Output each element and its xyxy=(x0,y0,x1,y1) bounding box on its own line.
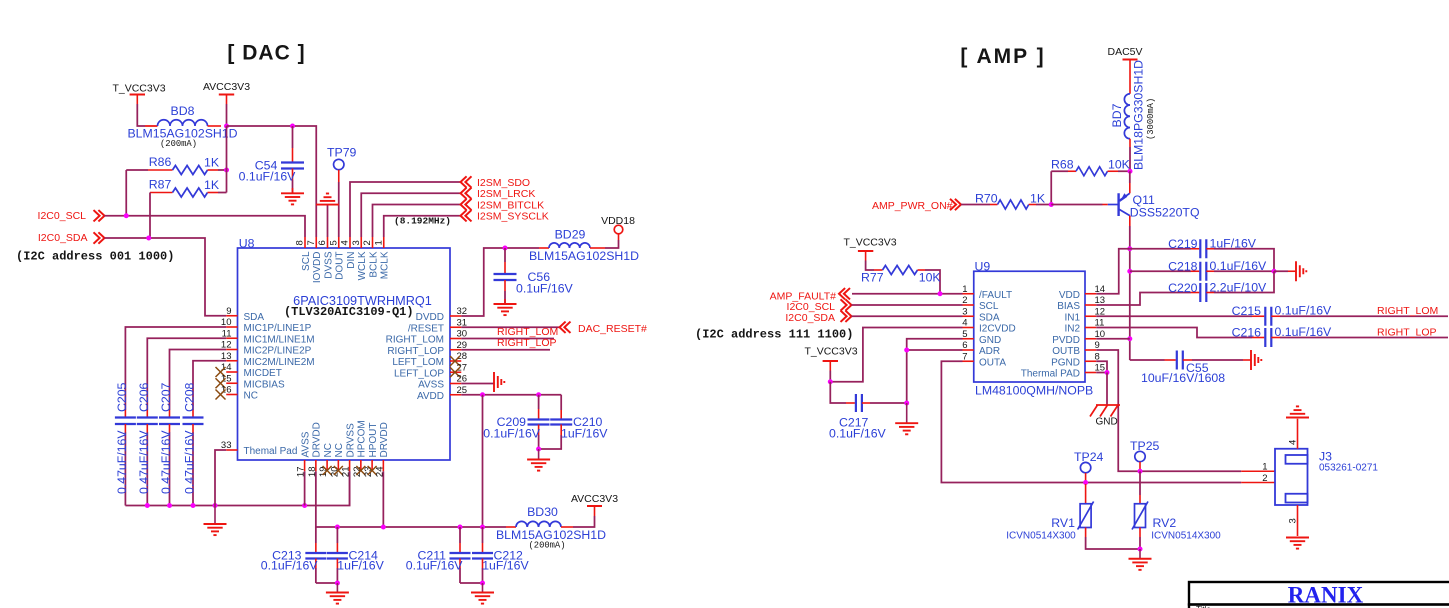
ferrite bead BD30 xyxy=(506,521,573,527)
svg-text:ICVN0514X300: ICVN0514X300 xyxy=(1151,531,1221,542)
junction TP24/OUTA xyxy=(1083,480,1088,485)
title block RANIX xyxy=(1288,583,1364,608)
U8 pin 22 HPCOM (bottom) xyxy=(352,420,368,477)
svg-text:DRVDD: DRVDD xyxy=(312,422,323,457)
value R77 10K xyxy=(919,271,942,285)
wire AVCC3V3 stem xyxy=(226,104,228,126)
value ICVN0514X300 (RV1) xyxy=(1006,531,1076,542)
svg-text:VDD: VDD xyxy=(1059,290,1080,301)
net label RIGHT_LOP (AMP) xyxy=(1377,326,1437,338)
junction PGND/pad xyxy=(1105,370,1110,375)
value C212 1uF/16V xyxy=(482,558,529,572)
title block Title text xyxy=(1196,605,1211,608)
value C207 0.47uF/16V xyxy=(159,430,173,494)
ground below C54 xyxy=(281,193,304,204)
net label AMP_FAULT# xyxy=(770,288,850,302)
wire BD8 node down to R87 xyxy=(226,126,228,193)
svg-text:13: 13 xyxy=(1095,295,1106,306)
U8 pin 21 DRVSS (bottom) xyxy=(341,423,357,477)
ground below rail xyxy=(204,506,227,536)
net label I2SM_SDO xyxy=(461,176,531,189)
connector J3 body xyxy=(1275,449,1308,505)
svg-text:3: 3 xyxy=(1288,518,1299,523)
power T_VCC3V3 (DAC) xyxy=(112,83,165,105)
U8 pin 8 SCL (top) xyxy=(295,237,312,271)
net label RIGHT_LOM (DAC) xyxy=(497,326,558,338)
value C215 0.1uF/16V xyxy=(1275,304,1333,318)
svg-text:(3000mA): (3000mA) xyxy=(1146,98,1156,140)
op-amp U9 box xyxy=(974,271,1085,382)
svg-text:1: 1 xyxy=(1262,462,1267,473)
junction C218 node xyxy=(1127,269,1132,274)
wire T_VCC3V3 stem 2 xyxy=(829,371,831,382)
capacitor C54 xyxy=(281,126,304,193)
U8 pin 28 LEFT_LOM (right) xyxy=(392,351,467,368)
capacitor C213 xyxy=(305,527,337,583)
svg-text:U9: U9 xyxy=(975,260,991,274)
label C211 xyxy=(418,549,447,563)
U9 pin 11 IN2 (right) xyxy=(1064,318,1104,335)
net label I2SM_SYSCLK xyxy=(461,210,549,222)
wire T_VCC3V3 to BD8 xyxy=(137,104,157,126)
capacitor C211 xyxy=(450,527,483,583)
svg-text:R70: R70 xyxy=(975,192,998,206)
svg-text:BLM15AG102SH1D: BLM15AG102SH1D xyxy=(529,249,639,263)
svg-text:1uF/16V: 1uF/16V xyxy=(337,558,384,572)
svg-text:(200mA): (200mA) xyxy=(529,541,566,551)
label GND xyxy=(1096,417,1118,428)
svg-text:RIGHT_LOM: RIGHT_LOM xyxy=(497,326,558,338)
svg-text:0.1uF/16V: 0.1uF/16V xyxy=(1275,325,1333,339)
label RV1 xyxy=(1051,516,1075,530)
U9 pin 10 PVDD (right) xyxy=(1052,329,1105,346)
svg-text:DVDD: DVDD xyxy=(416,312,444,323)
svg-text:AMP_PWR_ON#: AMP_PWR_ON# xyxy=(872,200,953,212)
net label DAC_RESET# xyxy=(560,322,648,335)
svg-text:LEFT_LOM: LEFT_LOM xyxy=(392,357,444,368)
U8 pin 17 AVSS (bottom) xyxy=(296,431,312,477)
junction R70/R68 xyxy=(1049,202,1054,207)
svg-text:BD8: BD8 xyxy=(171,104,195,118)
ferrite bead BD29 xyxy=(539,243,605,248)
junction T_VCC3V3/C217 xyxy=(828,379,833,384)
svg-text:3: 3 xyxy=(351,240,362,245)
svg-text:(TLV320AIC3109-Q1): (TLV320AIC3109-Q1) xyxy=(284,305,414,319)
net label AMP_PWR_ON# xyxy=(872,199,961,212)
value C218 0.1uF/16V xyxy=(1210,259,1268,273)
resistor R86 xyxy=(126,166,226,175)
U8 pin 5 DOUT (top) xyxy=(328,237,345,280)
value C209 0.1uF/16V xyxy=(483,427,541,441)
wire OUTB pin9 to J3 pin1 xyxy=(1096,350,1275,471)
junction C218/C219/C220 xyxy=(1272,269,1277,274)
label BD30 xyxy=(527,505,558,519)
U9 pin 3 SDA (left) xyxy=(962,306,1000,323)
wire I2C0_SCL to pin2 xyxy=(852,304,963,306)
wire pin17 to rail xyxy=(304,471,306,505)
varistor RV2 xyxy=(1132,471,1148,549)
svg-text:0.1uF/16V: 0.1uF/16V xyxy=(406,558,464,572)
svg-text:BIAS: BIAS xyxy=(1057,301,1080,312)
svg-text:BD7: BD7 xyxy=(1110,103,1124,127)
value R87 1K xyxy=(204,178,220,192)
svg-text:T_VCC3V3: T_VCC3V3 xyxy=(804,346,857,358)
label R70 xyxy=(975,192,998,206)
label C212 xyxy=(494,549,524,563)
svg-text:RV1: RV1 xyxy=(1051,516,1075,530)
ground above DVSS pin6 xyxy=(316,194,339,205)
junction C54 tap xyxy=(290,124,295,129)
svg-text:2.2uF/10V: 2.2uF/10V xyxy=(1210,281,1268,295)
ground below C56 xyxy=(494,304,517,315)
wire pad node down xyxy=(1106,373,1108,406)
wire R87 left leg down xyxy=(149,193,151,239)
svg-text:I2SM_LRCK: I2SM_LRCK xyxy=(477,188,535,200)
value BLM15AG102SH1D (BD29) xyxy=(529,249,639,263)
svg-text:5: 5 xyxy=(962,329,967,340)
testpoint TP25 xyxy=(1130,439,1160,471)
svg-text:WCLK: WCLK xyxy=(357,251,368,280)
label RV2 xyxy=(1153,516,1177,530)
capacitor C220 xyxy=(1096,271,1274,305)
value C213 0.1uF/16V xyxy=(261,558,319,572)
svg-text:U8: U8 xyxy=(239,237,255,251)
value 053261-0271 (J3) xyxy=(1319,463,1378,474)
transistor Q11 xyxy=(1108,171,1130,226)
note I2C address 001 1000 xyxy=(16,250,174,264)
wire RIGHT_LOM pin30 xyxy=(461,338,554,340)
svg-text:C215: C215 xyxy=(1232,304,1262,318)
svg-text:DAC5V: DAC5V xyxy=(1107,46,1142,58)
svg-text:MIC1P/LINE1P: MIC1P/LINE1P xyxy=(244,323,312,334)
power symbol GND (hatched) xyxy=(1090,405,1120,417)
junction C209/C210 gnd xyxy=(536,447,541,452)
U8 pin 31 /RESET (right) xyxy=(408,317,467,334)
svg-text:1uF/16V: 1uF/16V xyxy=(1210,237,1257,251)
value (200mA) (BD8) xyxy=(160,139,197,149)
svg-text:GND: GND xyxy=(1096,417,1118,428)
svg-text:9: 9 xyxy=(226,306,231,317)
svg-text:R77: R77 xyxy=(861,271,884,285)
label C54 xyxy=(255,159,278,173)
svg-text:PGND: PGND xyxy=(1051,357,1080,368)
value DSS5220TQ (Q11) xyxy=(1130,206,1200,220)
wire OUTA pin7 to J3 pin2 xyxy=(941,361,1275,482)
wire TP79 to pin5 xyxy=(338,182,340,237)
label C219 xyxy=(1168,237,1198,251)
value (200mA) (BD30) xyxy=(529,541,566,551)
svg-text:15: 15 xyxy=(221,373,232,384)
U8 pin 25 AVDD (right) xyxy=(417,385,467,402)
net label I2C0_SDA (AMP) xyxy=(785,311,851,324)
svg-text:ADR: ADR xyxy=(979,346,1000,357)
junction rail pin17 xyxy=(302,503,307,508)
svg-text:T_VCC3V3: T_VCC3V3 xyxy=(843,237,896,249)
value C55 10uF/16V/1608 xyxy=(1141,371,1225,385)
wire Q11 collector down xyxy=(1129,226,1131,360)
svg-text:MICBIAS: MICBIAS xyxy=(244,379,285,390)
U8 pin 14 MICDET (left) xyxy=(216,362,282,379)
wire MIC pin to C205 xyxy=(125,327,226,418)
label C215 xyxy=(1232,304,1262,318)
resistor R77 xyxy=(866,261,940,294)
wire BD29 to VDD18 xyxy=(605,234,619,248)
label Q11 xyxy=(1133,193,1155,207)
capacitor C206 xyxy=(137,418,158,506)
svg-text:4: 4 xyxy=(1288,440,1299,445)
svg-text:DAC_RESET#: DAC_RESET# xyxy=(578,323,647,335)
svg-text:I2SM_BITCLK: I2SM_BITCLK xyxy=(477,199,544,211)
junction rail pin24 xyxy=(381,525,386,530)
svg-text:10K: 10K xyxy=(1108,158,1131,172)
svg-text:IOVDD: IOVDD xyxy=(312,252,323,284)
wire AVSS pin26 to ground xyxy=(461,383,494,385)
svg-text:0.1uF/16V: 0.1uF/16V xyxy=(239,170,297,184)
junction C209 tap xyxy=(536,392,541,397)
net label I2SM_LRCK xyxy=(461,188,536,200)
svg-text:14: 14 xyxy=(221,362,232,373)
wire pin24 to rail xyxy=(382,471,384,527)
ferrite bead BD8 xyxy=(158,120,222,126)
junction rail AVDD xyxy=(480,525,485,530)
part number 6PAIC3109TWRHMRQ1 xyxy=(293,294,432,308)
svg-text:R86: R86 xyxy=(149,155,172,169)
U8 pin 26 AVSS (right) xyxy=(418,374,467,391)
net label I2C0_SDA (DAC) xyxy=(38,232,105,244)
ground below C214 xyxy=(326,583,349,604)
junction rail C206 xyxy=(145,503,150,508)
U8 pin 12 MIC2P/LINE2P (left) xyxy=(221,340,312,357)
U8 pin 3 WCLK (top) xyxy=(351,237,368,280)
svg-text:1uF/16V: 1uF/16V xyxy=(561,427,608,441)
wire analog ground rail xyxy=(125,471,349,505)
label R87 xyxy=(149,178,172,192)
label R86 xyxy=(149,155,172,169)
capacitor C219 xyxy=(1130,239,1274,271)
net label I2C0_SCL (AMP) xyxy=(787,299,852,313)
svg-text:J3: J3 xyxy=(1319,450,1332,464)
label J3 xyxy=(1319,450,1332,464)
value C206 0.47uF/16V xyxy=(137,430,151,494)
label BD7 xyxy=(1110,103,1124,127)
svg-text:DSS5220TQ: DSS5220TQ xyxy=(1130,206,1200,220)
svg-text:14: 14 xyxy=(1095,284,1106,295)
power T_VCC3V3 (AMP lower) xyxy=(804,346,857,371)
node VDD18 xyxy=(601,215,635,234)
svg-text:0.47uF/16V: 0.47uF/16V xyxy=(183,430,197,494)
capacitor C215 xyxy=(1096,307,1448,326)
ground below C209 xyxy=(527,449,550,471)
wire pin33 to rail xyxy=(215,450,226,506)
svg-text:RV2: RV2 xyxy=(1153,516,1177,530)
svg-text:ICVN0514X300: ICVN0514X300 xyxy=(1006,531,1076,542)
svg-text:(I2C address 001 1000): (I2C address 001 1000) xyxy=(16,250,174,264)
svg-text:C208: C208 xyxy=(183,382,197,412)
label C55 xyxy=(1186,361,1209,375)
value C217 0.1uF/16V xyxy=(829,427,887,441)
svg-text:(I2C address 111 1100): (I2C address 111 1100) xyxy=(695,328,853,342)
svg-text:I2C0_SDA: I2C0_SDA xyxy=(785,312,835,324)
svg-text:Thermal PAD: Thermal PAD xyxy=(1021,369,1080,380)
junction rail C211 xyxy=(458,525,463,530)
svg-text:/RESET: /RESET xyxy=(408,323,444,334)
svg-text:[ DAC ]: [ DAC ] xyxy=(227,42,305,65)
capacitor C210 xyxy=(539,395,573,449)
value C211 0.1uF/16V xyxy=(406,558,464,572)
U8 pin 29 RIGHT_LOP (right) xyxy=(387,340,467,357)
value C205 0.47uF/16V xyxy=(115,430,129,494)
wire MCLK to I2SM_SYSCLK xyxy=(384,216,461,237)
svg-text:1: 1 xyxy=(962,284,967,295)
wire MIC pin to C208 xyxy=(193,361,226,418)
junction rail C214 xyxy=(335,525,340,530)
U9 pin 8 PGND (right) xyxy=(1051,351,1100,368)
wire AVDD pin25 xyxy=(461,394,561,396)
svg-text:2: 2 xyxy=(362,240,373,245)
title block frame xyxy=(1189,582,1449,608)
svg-text:LEFT_LOP: LEFT_LOP xyxy=(394,368,444,379)
U9 pin 6 ADR (left) xyxy=(962,340,1000,357)
section title [ DAC ] xyxy=(227,42,305,65)
wire BD30 to AVCC3V3 xyxy=(573,506,595,527)
svg-text:I2SM_SYSCLK: I2SM_SYSCLK xyxy=(477,211,549,223)
U9 pin 15 Thermal PAD (right) xyxy=(1021,363,1105,380)
value (3000mA) (BD7) xyxy=(1146,98,1156,140)
svg-text:BD30: BD30 xyxy=(527,505,558,519)
label C217 xyxy=(839,416,869,430)
wire I2C0_SDA to pin3 xyxy=(852,315,963,317)
wire Thermal PAD pin15 xyxy=(1096,372,1107,374)
svg-text:BLM18PG330SH1D: BLM18PG330SH1D xyxy=(1132,60,1146,170)
value C220 2.2uF/10V xyxy=(1210,281,1268,295)
value BLM15AG102SH1D (BD8) xyxy=(127,127,237,141)
label C218 xyxy=(1168,260,1198,274)
wire AMP_FAULT# to pin1 xyxy=(852,293,963,295)
svg-text:0.47uF/16V: 0.47uF/16V xyxy=(115,430,129,494)
svg-text:SDA: SDA xyxy=(979,312,1000,323)
ferrite bead BD7 xyxy=(1124,94,1130,172)
svg-text:BCLK: BCLK xyxy=(368,251,379,277)
svg-text:7: 7 xyxy=(306,240,317,245)
testpoint TP79 xyxy=(327,146,357,183)
svg-text:NC: NC xyxy=(244,391,258,402)
capacitor C209 xyxy=(528,395,550,449)
svg-text:AVCC3V3: AVCC3V3 xyxy=(571,493,618,505)
label U8 xyxy=(239,237,255,251)
capacitor C212 xyxy=(472,527,493,583)
ground above J3 pin4 (flipped) xyxy=(1286,406,1309,417)
capacitor C216 xyxy=(1096,328,1448,348)
varistor RV1 xyxy=(1078,484,1140,549)
wire DIN to I2SM_SDO xyxy=(350,182,461,237)
section title [ AMP ] xyxy=(960,45,1045,68)
svg-text:T_VCC3V3: T_VCC3V3 xyxy=(112,83,165,95)
svg-text:DRVDD: DRVDD xyxy=(379,422,390,457)
part number (TLV320AIC3109-Q1) xyxy=(284,305,414,319)
capacitor C207 xyxy=(159,418,180,506)
svg-text:MIC2P/LINE2P: MIC2P/LINE2P xyxy=(244,346,312,357)
svg-text:AVCC3V3: AVCC3V3 xyxy=(203,81,250,93)
capacitor C214 xyxy=(327,527,348,583)
svg-text:IN2: IN2 xyxy=(1064,324,1080,335)
label C216 xyxy=(1232,325,1262,339)
junction AVDD riser xyxy=(480,392,485,397)
svg-text:NC: NC xyxy=(334,443,345,457)
wire AVDD down to rail xyxy=(482,395,484,527)
svg-text:0.47uF/16V: 0.47uF/16V xyxy=(137,430,151,494)
ground sideways AVSS xyxy=(494,372,504,392)
power T_VCC3V3 (AMP upper) xyxy=(843,237,896,261)
svg-text:1K: 1K xyxy=(204,178,220,192)
svg-text:I2SM_SDO: I2SM_SDO xyxy=(477,177,530,189)
junction I2C0_SDA / R87 xyxy=(146,236,151,241)
junction C217/GND xyxy=(904,401,909,406)
svg-text:PVDD: PVDD xyxy=(1052,335,1080,346)
svg-text:AVSS: AVSS xyxy=(300,431,311,457)
value C210 1uF/16V xyxy=(561,427,608,441)
value ICVN0514X300 (RV2) xyxy=(1151,531,1221,542)
op-amp U8 box xyxy=(238,248,451,460)
svg-text:1uF/16V: 1uF/16V xyxy=(482,558,529,572)
U8 pin 20 NC (bottom) xyxy=(329,443,345,477)
label C210 xyxy=(573,415,603,429)
value BLM15AG102SH1D (BD30) xyxy=(496,528,606,542)
svg-text:LM48100QMH/NOPB: LM48100QMH/NOPB xyxy=(975,384,1093,398)
svg-text:0.1uF/16V: 0.1uF/16V xyxy=(483,427,541,441)
label C208 xyxy=(183,382,197,412)
svg-text:0.47uF/16V: 0.47uF/16V xyxy=(159,430,173,494)
label C220 xyxy=(1168,281,1198,295)
svg-text:R68: R68 xyxy=(1051,158,1074,172)
svg-text:BD29: BD29 xyxy=(555,228,586,242)
svg-text:1K: 1K xyxy=(204,156,220,170)
svg-text:I2C0_SDA: I2C0_SDA xyxy=(38,232,88,244)
wire RIGHT_LOP pin29 xyxy=(461,349,550,351)
svg-text:HPOUT: HPOUT xyxy=(368,423,379,458)
svg-text:DRVSS: DRVSS xyxy=(345,423,356,458)
U9 pin 9 OUTB (right) xyxy=(1052,340,1100,357)
U9 pin 7 OUTA (left) xyxy=(962,351,1006,368)
U9 pin 12 IN1 (right) xyxy=(1064,306,1105,323)
svg-text:I2CVDD: I2CVDD xyxy=(979,324,1016,335)
svg-text:3: 3 xyxy=(962,306,967,317)
svg-text:0.1uF/16V: 0.1uF/16V xyxy=(516,282,574,296)
capacitor C218 xyxy=(1130,262,1274,281)
svg-text:MCLK: MCLK xyxy=(380,251,391,279)
testpoint TP24 xyxy=(1074,450,1104,483)
wire VDD riser xyxy=(1096,249,1130,294)
svg-text:053261-0271: 053261-0271 xyxy=(1319,463,1378,474)
power AVCC3V3 (DAC top) xyxy=(203,81,250,104)
wire GND pin5 net xyxy=(907,339,963,403)
wire WCLK to I2SM_LRCK xyxy=(361,193,460,237)
wire R68 left leg down xyxy=(1050,171,1052,204)
capacitor C205 xyxy=(115,418,136,506)
net label I2C0_SCL (DAC) xyxy=(38,210,105,222)
label C207 xyxy=(159,382,173,412)
capacitor C208 xyxy=(183,418,204,506)
ground below C212 xyxy=(471,583,494,604)
label C213 xyxy=(272,549,302,563)
svg-text:10K: 10K xyxy=(919,271,942,285)
svg-text:0.1uF/16V: 0.1uF/16V xyxy=(1210,259,1268,273)
ground sideways AMP caps xyxy=(1296,261,1306,281)
svg-text:R87: R87 xyxy=(149,178,172,192)
svg-text:SCL: SCL xyxy=(979,301,999,312)
junction C211/C212 gnd xyxy=(480,581,485,586)
U8 pin 32 DVDD (right) xyxy=(416,306,467,323)
U8 pin 1 MCLK (top) xyxy=(373,237,390,279)
